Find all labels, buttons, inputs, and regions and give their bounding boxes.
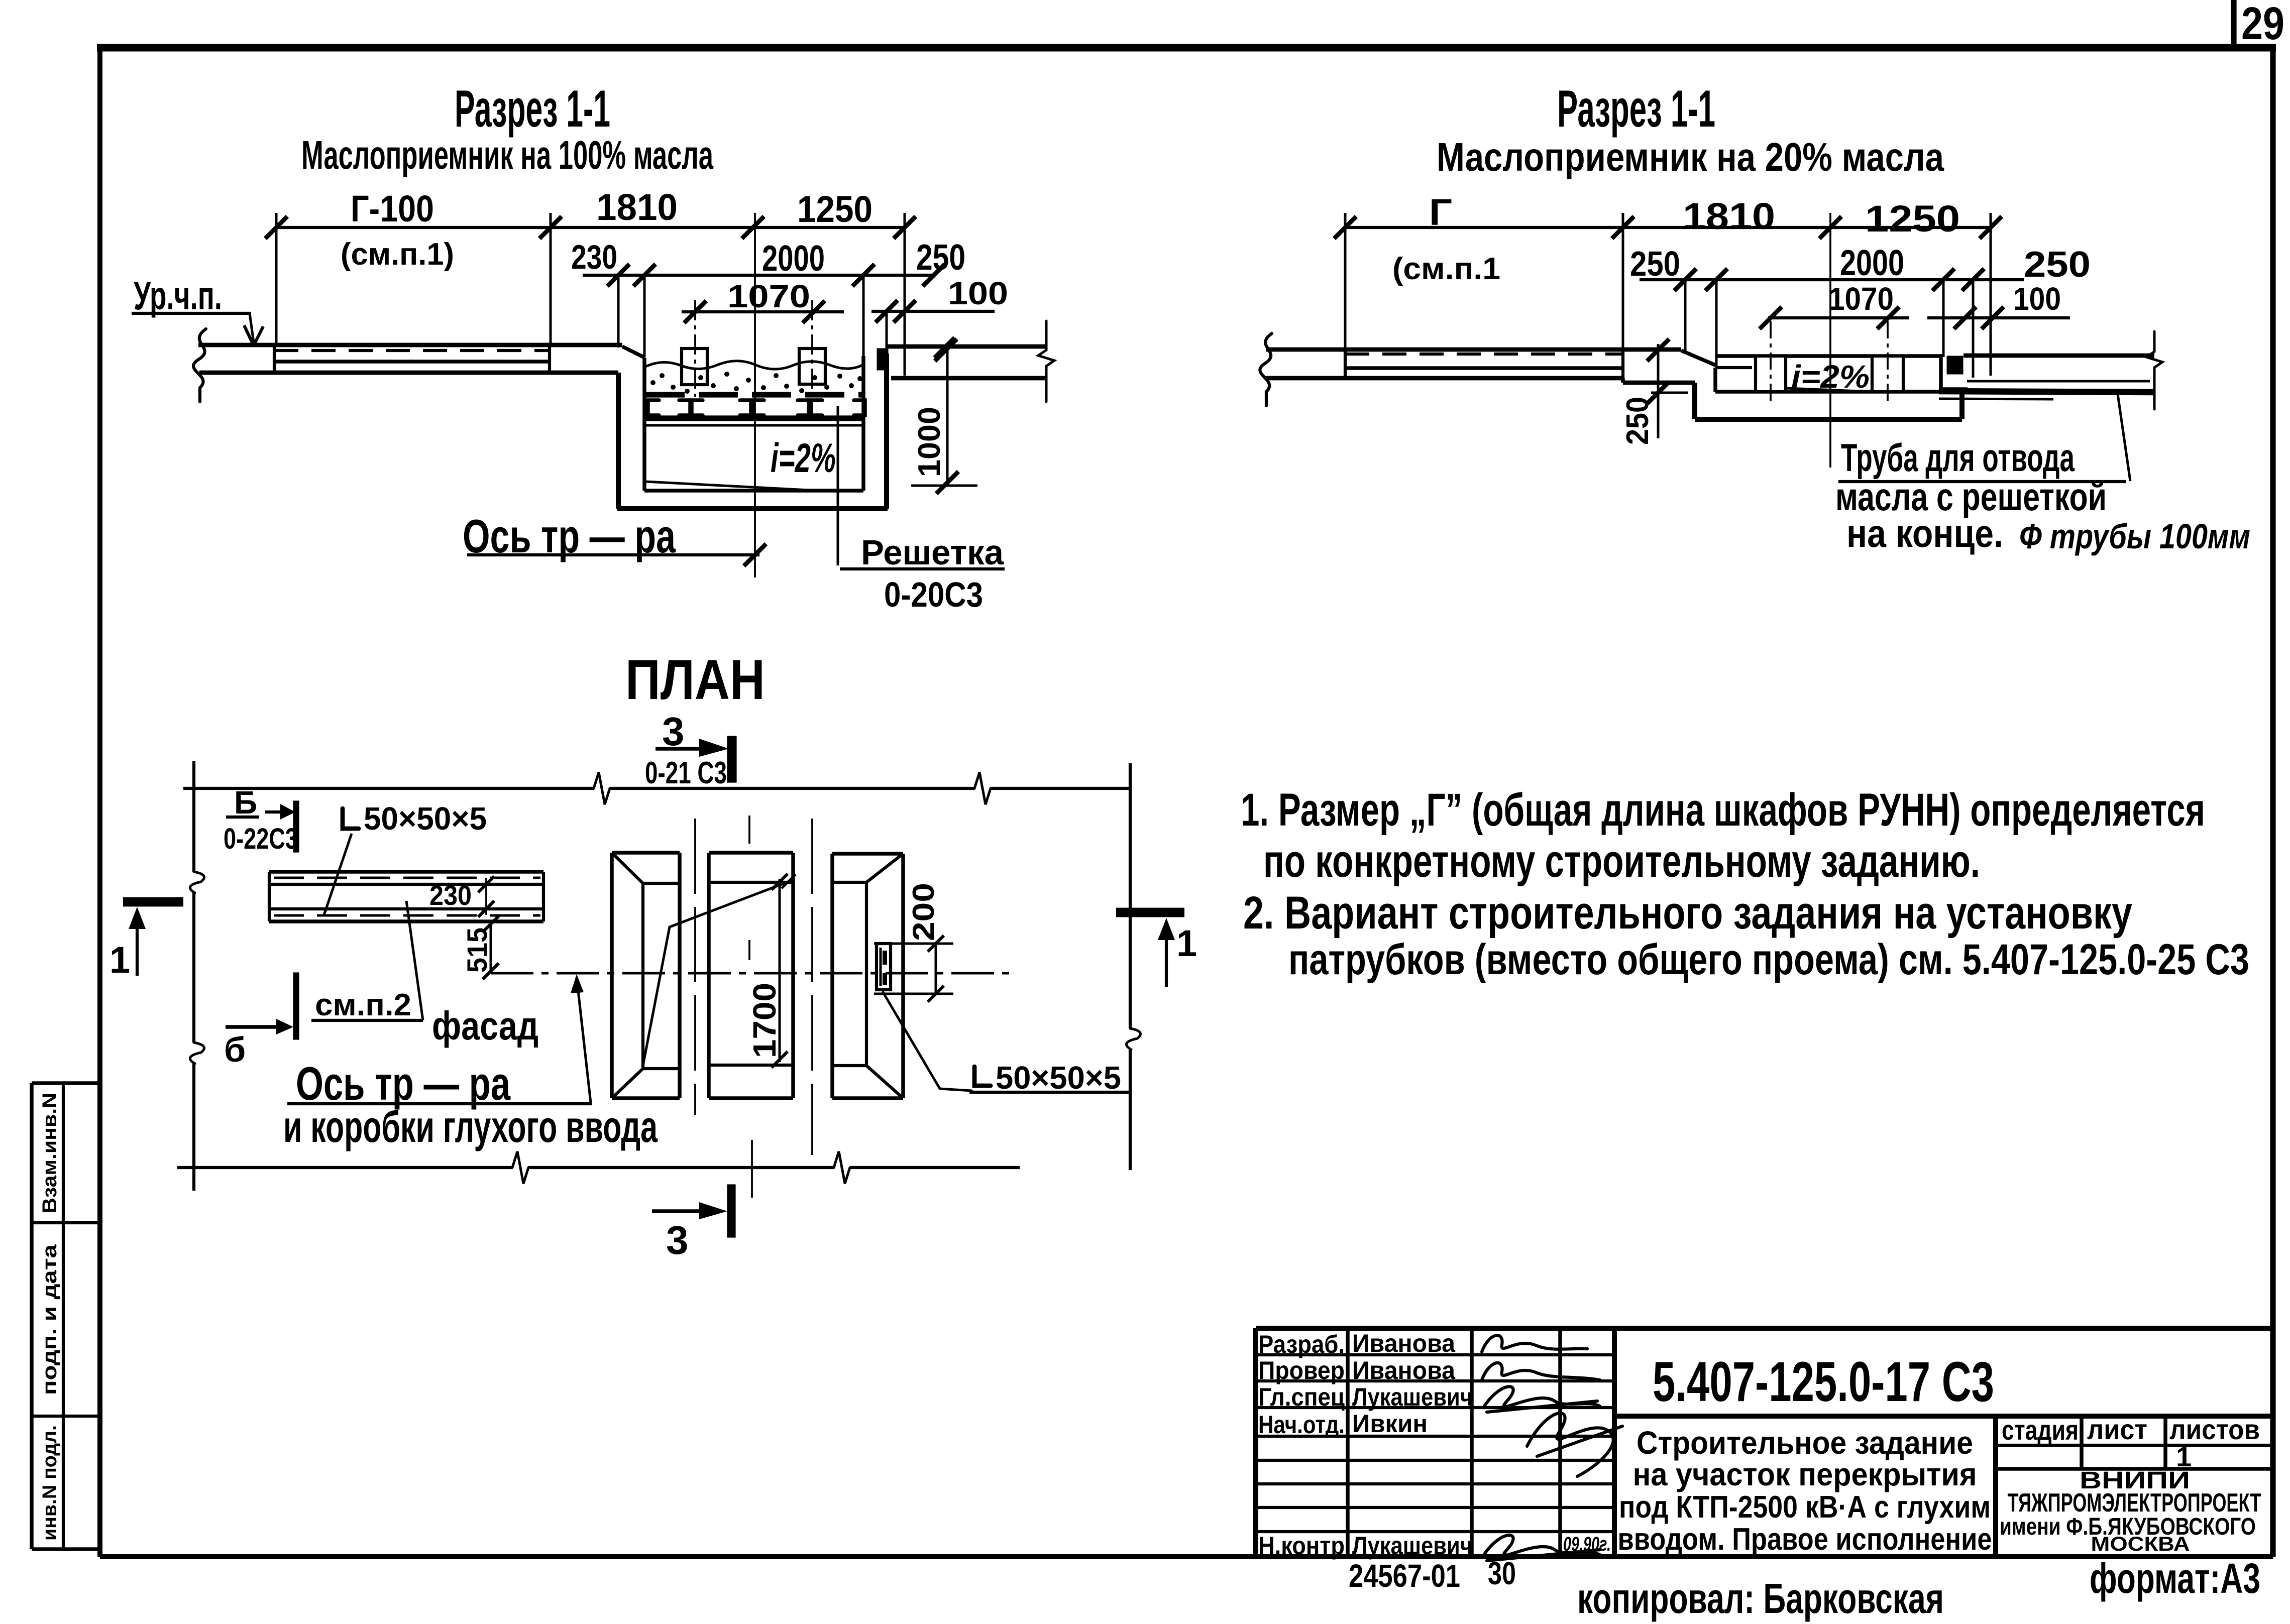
svg-text:(см.п.1: (см.п.1 [1392,252,1500,286]
svg-text:инв.N подл.: инв.N подл. [39,1425,61,1541]
svg-text:Г-100: Г-100 [351,188,434,229]
svg-text:250: 250 [1630,244,1680,283]
svg-text:Б: Б [234,784,257,821]
svg-text:Разрез 1-1: Разрез 1-1 [455,80,610,138]
svg-text:1250: 1250 [1865,198,1960,240]
svg-text:30: 30 [1488,1555,1516,1591]
svg-text:(см.п.1): (см.п.1) [341,237,454,272]
svg-text:подп. и дата: подп. и дата [39,1244,61,1395]
svg-text:i=2%: i=2% [1791,359,1870,395]
svg-text:1250: 1250 [797,188,873,230]
svg-text:3: 3 [666,1218,689,1262]
svg-text:515: 515 [461,927,493,973]
svg-text:под КТП-2500 кВ·А с глухим: под КТП-2500 кВ·А с глухим [1619,1490,1991,1525]
svg-text:по конкретному строительному з: по конкретному строительному заданию. [1263,836,1980,887]
svg-text:Иванова: Иванова [1352,1356,1456,1384]
svg-text:50×50×5: 50×50×5 [364,800,487,837]
svg-text:Ивкин: Ивкин [1352,1410,1428,1438]
svg-text:копировал: Барковская: копировал: Барковская [1577,1575,1944,1622]
svg-text:Иванова: Иванова [1352,1329,1456,1357]
svg-text:МОСКВА: МОСКВА [2091,1533,2190,1555]
svg-text:Гл.спец: Гл.спец [1258,1383,1345,1411]
svg-text:1810: 1810 [596,186,678,228]
svg-text:Труба для отвода: Труба для отвода [1841,435,2075,480]
svg-text:фасад: фасад [432,1003,538,1048]
svg-text:250: 250 [2024,245,2091,285]
svg-text:Н.контр: Н.контр [1258,1532,1345,1560]
svg-text:5.407-125.0-17 С3: 5.407-125.0-17 С3 [1653,1350,1994,1413]
svg-text:230: 230 [429,879,472,911]
svg-text:Строительное задание: Строительное задание [1637,1425,1973,1461]
svg-text:Лукашевич: Лукашевич [1352,1383,1473,1411]
svg-text:б: б [224,1030,246,1069]
svg-text:Ф трубы 100мм: Ф трубы 100мм [2019,517,2250,556]
svg-text:230: 230 [571,238,617,276]
svg-text:250: 250 [1620,397,1655,445]
svg-text:Ур.ч.п.: Ур.ч.п. [134,273,222,318]
svg-text:и коробки глухого ввода: и коробки глухого ввода [283,1102,658,1151]
svg-text:на конце.: на конце. [1846,511,2003,555]
svg-text:Разрез 1-1: Разрез 1-1 [1557,80,1715,138]
svg-text:1. Размер „Г” (общая длина шка: 1. Размер „Г” (общая длина шкафов РУНН) … [1241,784,2205,836]
svg-text:см.п.2: см.п.2 [315,988,411,1022]
svg-text:Лукашевич: Лукашевич [1352,1532,1473,1560]
svg-text:1700: 1700 [746,983,783,1058]
svg-text:i=2%: i=2% [771,435,836,481]
svg-text:1000: 1000 [912,407,947,477]
svg-text:лист: лист [2087,1414,2147,1445]
svg-text:ПЛАН: ПЛАН [625,648,765,711]
svg-text:100: 100 [948,275,1008,311]
svg-text:1: 1 [1176,922,1197,964]
svg-text:2000: 2000 [762,239,825,279]
svg-text:29: 29 [2241,0,2284,49]
svg-text:0-20С3: 0-20С3 [884,575,983,614]
svg-text:Г: Г [1429,191,1452,233]
svg-text:патрубков (вместо общего проем: патрубков (вместо общего проема) см. 5.4… [1288,936,2249,984]
svg-text:0-22С3: 0-22С3 [224,823,298,855]
svg-text:на участок перекрытия: на участок перекрытия [1633,1456,1977,1492]
svg-text:100: 100 [2013,281,2061,317]
svg-text:Маслоприемник на 20% масла: Маслоприемник на 20% масла [1437,135,1944,179]
svg-text:1: 1 [110,939,130,981]
svg-text:1070: 1070 [1828,281,1894,317]
svg-text:стадия: стадия [2002,1414,2079,1446]
svg-text:Нач.отд.: Нач.отд. [1258,1411,1345,1439]
svg-text:0-21 С3: 0-21 С3 [645,756,727,790]
svg-text:250: 250 [916,238,965,278]
svg-text:2000: 2000 [1840,243,1904,283]
svg-text:Взам.инв.N: Взам.инв.N [39,1093,61,1213]
svg-text:1070: 1070 [727,278,810,314]
svg-text:50×50×5: 50×50×5 [996,1060,1121,1096]
svg-text:Провер: Провер [1258,1356,1345,1384]
svg-text:Маслоприемник на 100% масла: Маслоприемник на 100% масла [301,133,713,177]
svg-text:1810: 1810 [1683,195,1775,237]
svg-text:200: 200 [907,883,940,941]
svg-text:формат:А3: формат:А3 [2090,1555,2260,1602]
svg-text:Разраб.: Разраб. [1258,1330,1345,1358]
svg-text:24567-01: 24567-01 [1349,1558,1460,1594]
svg-text:Решетка: Решетка [861,533,1004,572]
svg-text:вводом. Правое исполнение: вводом. Правое исполнение [1618,1522,1992,1557]
svg-text:2. Вариант строительного задан: 2. Вариант строительного задания на уста… [1243,887,2132,939]
